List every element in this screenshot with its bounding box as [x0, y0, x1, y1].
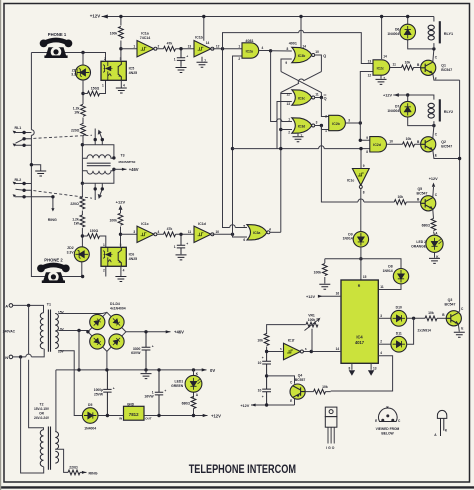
wire IC5 pin4 ground stub	[120, 80, 122, 87]
svg-text:16VW: 16VW	[144, 395, 154, 399]
wire IC1b out to IC2a	[212, 48, 242, 50]
resistor 47k ch1	[164, 46, 176, 51]
svg-text:+46V: +46V	[174, 330, 184, 335]
svg-text:IC3b: IC3b	[298, 54, 306, 58]
wire IC3c out	[315, 97, 322, 99]
svg-text:8: 8	[287, 47, 289, 51]
svg-text:I G O: I G O	[326, 446, 334, 450]
wire IC2d out to 10k	[387, 143, 421, 145]
wire LED2 to ground	[434, 252, 436, 257]
svg-text:Q2: Q2	[441, 140, 446, 144]
svg-text:C: C	[435, 56, 438, 60]
transistor Q4 BC557 pnp	[290, 384, 305, 399]
contact T3 top poles	[95, 129, 102, 145]
wire RL2 arm	[16, 189, 32, 197]
svg-text:4001: 4001	[289, 42, 297, 46]
svg-text:5: 5	[280, 347, 282, 351]
wire 10k to Q3	[437, 317, 446, 319]
svg-text:LED1: LED1	[175, 380, 184, 384]
wire pin14 from IC1f	[303, 351, 341, 353]
wire pin2 to D11	[378, 343, 391, 345]
wire IC3b vdd stub	[300, 17, 302, 48]
svg-text:12: 12	[216, 45, 220, 49]
svg-text:10k: 10k	[322, 385, 328, 389]
op-amp IC1a inverter	[137, 41, 157, 57]
svg-text:9: 9	[285, 61, 287, 65]
svg-text:RLY1: RLY1	[444, 32, 453, 36]
svg-text:Q3: Q3	[448, 298, 453, 302]
svg-text:B: B	[417, 198, 420, 202]
resistor 10k q2	[403, 142, 415, 147]
ground LED2	[429, 258, 440, 263]
node IC1d out junction	[231, 233, 234, 236]
svg-text:IC1b: IC1b	[195, 36, 204, 40]
svg-text:5: 5	[243, 225, 245, 229]
svg-text:11: 11	[188, 230, 192, 234]
node zd1-150 junction	[81, 92, 84, 95]
wire T3 left rail	[81, 145, 83, 184]
svg-text:GREEN: GREEN	[171, 384, 184, 388]
svg-text:45035/MT60: 45035/MT60	[118, 160, 136, 164]
svg-text:D11: D11	[396, 332, 402, 336]
bridge diamond	[88, 312, 126, 351]
wire sec top to bridge	[58, 312, 107, 313]
phone 1 icon	[40, 40, 73, 59]
svg-text:14: 14	[336, 347, 340, 351]
diode D7 1N4004	[400, 101, 416, 117]
wire bus 270.6 to IC3d pin1	[271, 51, 292, 122]
transistor Q5 BC547	[421, 196, 436, 211]
svg-text:IC1a: IC1a	[141, 32, 150, 36]
wire hop IC3d pin1	[277, 119, 285, 122]
ground under rail	[145, 370, 147, 373]
LED1 green	[193, 370, 195, 416]
svg-text:B: B	[417, 63, 420, 67]
svg-text:ORANGE: ORANGE	[411, 245, 427, 249]
relay RL1 contact arrows	[13, 131, 16, 147]
svg-text:Q1: Q1	[441, 63, 446, 67]
svg-text:24V-0-24V: 24V-0-24V	[34, 416, 50, 420]
wire IC3d out	[315, 125, 322, 127]
svg-text:RL2: RL2	[15, 178, 22, 182]
op-amp IC1d inverter	[194, 226, 214, 242]
wire hop over RL1 contact	[31, 130, 34, 136]
node ch2 junction	[81, 234, 84, 237]
svg-text:+: +	[186, 242, 188, 246]
svg-text:13: 13	[373, 366, 377, 370]
phone 2 icon	[37, 265, 70, 284]
svg-text:A: A	[5, 303, 8, 308]
svg-text:K: K	[445, 429, 448, 433]
svg-text:13: 13	[188, 44, 192, 48]
logic gate IC3d 4001	[292, 118, 312, 133]
capacitor 1u ch1	[177, 49, 185, 67]
svg-text:PHONE 2: PHONE 2	[44, 257, 63, 262]
wire 680 to LED2	[434, 232, 435, 236]
diode D9 1N914	[353, 232, 368, 247]
resistor 1.2k ch1	[81, 104, 86, 116]
node 47k-cap junction	[179, 47, 182, 50]
svg-text:10: 10	[258, 361, 262, 365]
wire Q5 emitter to 680	[432, 210, 435, 219]
svg-text:1: 1	[133, 44, 135, 48]
wire IC3c pin13	[277, 102, 292, 149]
capacitor 1000u	[103, 370, 111, 416]
ground IC1b pin7	[201, 57, 203, 62]
wire cross diagonal A	[281, 72, 322, 93]
svg-text:1: 1	[174, 57, 176, 61]
svg-text:3: 3	[133, 230, 135, 234]
svg-text:1N4004: 1N4004	[387, 32, 399, 36]
svg-text:220Ω: 220Ω	[71, 128, 80, 132]
svg-text:T2: T2	[40, 402, 44, 406]
transistor Q2 BC547	[421, 137, 436, 152]
relay RLY1 coil	[428, 21, 440, 43]
wire Q3 emitter to gnd	[457, 325, 460, 332]
logic gate IC2b 4081	[329, 115, 346, 130]
svg-text:+12V: +12V	[211, 413, 221, 418]
wire +12V to RLY2 top	[393, 95, 434, 100]
inverter IC1f	[284, 343, 304, 359]
svg-text:+: +	[152, 344, 154, 348]
wire D10 to 10k	[407, 317, 425, 319]
wire dashed RL2 link	[33, 191, 92, 199]
wire IC3a out up the 280.8 bus	[270, 231, 281, 233]
svg-text:2: 2	[288, 131, 290, 135]
svg-text:10: 10	[258, 389, 262, 393]
relay RLY2 coil	[428, 99, 440, 121]
svg-text:11: 11	[315, 93, 319, 97]
svg-text:2: 2	[380, 340, 382, 344]
resistor 220R ch2	[80, 197, 85, 209]
svg-text:15V: 15V	[58, 350, 65, 354]
transformer T3 loop	[81, 129, 127, 201]
diode D10	[391, 310, 407, 326]
svg-text:LED 2: LED 2	[416, 240, 426, 244]
wire 220R to RING	[80, 471, 87, 473]
svg-text:240VAC: 240VAC	[3, 329, 16, 333]
wire rail to IC2c vdd	[381, 17, 383, 60]
svg-text:T1: T1	[47, 303, 51, 307]
resistor 10k q4	[314, 389, 326, 394]
wire sec bottom down to D5	[58, 351, 82, 416]
resistor 680 q5	[431, 219, 436, 231]
wire IC3c pin12	[281, 93, 292, 94]
wire pin3 to D10	[378, 317, 391, 319]
svg-text:1N4004: 1N4004	[84, 427, 96, 431]
wire to Q4 collector	[267, 376, 295, 384]
ground IC4 pin8	[349, 370, 355, 376]
svg-text:2x1N914: 2x1N914	[418, 329, 432, 333]
svg-text:4: 4	[158, 230, 160, 234]
wire bridge right +46V	[126, 331, 171, 333]
wire hop N over A column	[26, 354, 32, 357]
svg-text:1: 1	[288, 118, 290, 122]
wire ground tap	[31, 165, 40, 171]
svg-text:10k: 10k	[397, 195, 403, 199]
wire 150R ch2	[82, 236, 105, 247]
wire to IC2b pin1	[321, 126, 328, 130]
wire +12V to pin16	[319, 295, 342, 297]
svg-text:8: 8	[349, 366, 351, 370]
svg-text:IC2d: IC2d	[373, 143, 381, 147]
svg-text:1000µ: 1000µ	[94, 388, 103, 392]
wire T3 bottom	[82, 169, 114, 183]
wire D8 to pin11	[378, 284, 401, 290]
svg-text:IC6: IC6	[129, 252, 135, 256]
wire IC2c out to 10k	[390, 67, 421, 69]
wire IC3b out to Q column	[315, 55, 322, 72]
zener ZD2	[74, 247, 89, 262]
wire A to T1	[13, 305, 44, 312]
resistor 10k q5	[394, 200, 406, 205]
wire pin13 gnd stub	[370, 363, 372, 370]
svg-text:N: N	[5, 355, 8, 360]
wire bus 280.8 down	[280, 94, 282, 233]
svg-text:D9: D9	[348, 232, 352, 236]
wire Qbar-drive column down to Q5 line	[321, 126, 394, 203]
svg-text:IC1f: IC1f	[288, 339, 295, 343]
transistor pinout viewed from below	[378, 408, 397, 421]
svg-text:15: 15	[363, 275, 367, 279]
svg-text:3: 3	[316, 121, 318, 125]
svg-text:BELOW: BELOW	[381, 431, 394, 435]
svg-text:47k: 47k	[167, 227, 173, 231]
svg-text:100k: 100k	[109, 218, 117, 222]
resistor 10k q1	[402, 65, 414, 70]
svg-text:D6: D6	[395, 27, 399, 31]
svg-text:+46V: +46V	[129, 167, 139, 172]
svg-text:680Ω: 680Ω	[182, 402, 191, 406]
wire ch2 chain column	[81, 183, 84, 276]
svg-text:E: E	[461, 326, 463, 330]
optocoupler IC5 4N25	[101, 61, 126, 80]
svg-text:2: 2	[103, 268, 105, 272]
inverter IC1e (down)	[352, 169, 369, 189]
svg-text:2: 2	[238, 57, 240, 61]
logic gate IC2a 4081	[242, 43, 259, 58]
wire pin4 loop	[331, 356, 393, 391]
wire IC1e out to D9	[360, 188, 362, 231]
svg-text:4: 4	[123, 84, 125, 88]
svg-text:13: 13	[286, 102, 290, 106]
svg-text:4: 4	[380, 351, 382, 355]
LED2 orange	[426, 235, 443, 252]
svg-text:+12V: +12V	[90, 14, 100, 19]
wire up to IC2c pin12	[360, 72, 373, 124]
wire IC1a out to 47k	[157, 48, 194, 50]
svg-text:4: 4	[269, 227, 271, 231]
wire 100k to ground	[324, 259, 326, 284]
svg-text:C: C	[435, 132, 438, 136]
capacitor 3300u	[142, 332, 151, 370]
bridge diodes D1-D4	[90, 314, 124, 349]
wire pin15 column	[360, 259, 362, 280]
diode D8 1N914	[393, 269, 408, 284]
svg-text:IC4: IC4	[356, 335, 363, 340]
svg-text:2: 2	[158, 44, 160, 48]
svg-text:+: +	[262, 395, 264, 399]
wire N column to T2 primary bottom	[21, 357, 44, 473]
svg-text:3: 3	[348, 118, 350, 122]
resistor 100k ch1	[120, 17, 122, 49]
svg-text:4017: 4017	[355, 340, 365, 345]
svg-text:9: 9	[363, 164, 365, 168]
transformer T1	[40, 310, 58, 352]
wire Q4 base to 10k	[305, 391, 331, 393]
T3 upper winding	[82, 155, 114, 158]
wire IC2b out	[346, 122, 361, 124]
svg-text:Q5: Q5	[417, 187, 422, 191]
resistor 47k ch2	[164, 232, 176, 237]
wire IC6 pin2 stub	[105, 266, 107, 276]
diode D7 wires	[408, 95, 434, 126]
svg-text:A: A	[196, 393, 199, 397]
svg-text:GND: GND	[127, 402, 135, 406]
logic gate IC3b 4001	[292, 47, 312, 62]
T3 lower winding	[82, 171, 114, 174]
svg-text:100k: 100k	[314, 271, 322, 275]
capacitor 1u 16VW	[155, 370, 163, 416]
svg-text:C: C	[398, 419, 401, 423]
LED pictogram	[437, 410, 446, 436]
wire IC1c out to 47k	[157, 233, 194, 235]
capacitor 10u lower	[262, 376, 271, 405]
wire to IC1c input	[121, 233, 138, 235]
ground IC3d pin7	[297, 133, 299, 137]
svg-text:IC3a: IC3a	[253, 231, 260, 235]
wire bridge bottom to rail	[106, 351, 108, 370]
node phone2 line junction	[81, 275, 84, 278]
svg-text:3: 3	[380, 314, 382, 318]
node 100k-IC5 junction	[119, 47, 122, 50]
svg-text:47k: 47k	[167, 42, 173, 46]
svg-text:BC547: BC547	[445, 302, 456, 306]
diode D6 wires	[408, 17, 434, 49]
svg-text:IC5: IC5	[129, 66, 135, 70]
svg-text:4x1N4004: 4x1N4004	[110, 306, 126, 310]
wire sec 0V tap to bridge left	[58, 330, 88, 332]
wire RLY2 coil bottom	[433, 121, 435, 125]
svg-text:B: B	[417, 140, 420, 144]
svg-text:IC3d: IC3d	[298, 124, 306, 128]
wire Q2 collector	[433, 126, 434, 139]
wire to IC1a input	[121, 48, 137, 50]
ground IC4 pin13	[368, 370, 374, 376]
capacitor 1u ch2	[177, 234, 185, 254]
wire right bus	[459, 80, 461, 311]
diode D6 1N4004	[400, 24, 416, 40]
svg-text:1: 1	[152, 390, 154, 394]
resistor 100k ic4	[322, 264, 327, 276]
wire Q1 emitter to bus	[433, 74, 460, 81]
svg-text:10: 10	[216, 230, 220, 234]
wire VR1 left to 10k column	[267, 325, 306, 334]
terminal N	[9, 355, 13, 359]
transistor Q3 BC547	[446, 311, 461, 326]
terminal A	[9, 304, 13, 308]
wire +46V tap	[114, 168, 127, 170]
wire 150R to IC5 pin1	[83, 80, 106, 93]
logic gate IC2c 4081	[373, 60, 390, 75]
svg-text:C: C	[290, 380, 293, 384]
svg-text:+12V: +12V	[240, 404, 249, 408]
resistor 1.2k ch2	[80, 215, 85, 227]
ground left tap	[35, 171, 46, 176]
wire long line to IC1e	[360, 149, 362, 169]
logic gate IC3a 4001	[247, 225, 267, 240]
svg-text:+: +	[186, 54, 188, 58]
contact T3 bottom poles	[95, 183, 102, 200]
node 47k-cap junction ch2	[179, 233, 182, 236]
svg-text:12: 12	[368, 73, 372, 77]
wire N to T1 bottom	[13, 349, 45, 357]
wire 0V rail	[56, 368, 207, 431]
svg-text:3.3V: 3.3V	[71, 73, 79, 77]
wire feedback top y32.5	[223, 33, 374, 64]
svg-text:E: E	[375, 419, 377, 423]
svg-text:16: 16	[336, 292, 340, 296]
svg-text:IC3c: IC3c	[298, 96, 305, 100]
svg-text:D7: D7	[395, 105, 399, 109]
wire dashed RL1 link	[33, 135, 92, 138]
wire RLY1 coil ends	[433, 17, 435, 49]
resistor 100k ch2	[120, 206, 122, 248]
svg-text:6: 6	[305, 347, 307, 351]
wire y258.8 line	[325, 259, 401, 269]
svg-text:150Ω: 150Ω	[91, 86, 100, 90]
resistor 150R ch2	[88, 234, 100, 239]
relay RL2 contact arrows	[13, 182, 55, 212]
wire Q1 collector	[433, 49, 434, 62]
svg-text:4N25: 4N25	[129, 257, 138, 261]
svg-text:1: 1	[174, 245, 176, 249]
svg-text:0V: 0V	[210, 368, 215, 373]
svg-text:1: 1	[103, 243, 105, 247]
wire RL2 bottom contact to RING	[15, 197, 53, 210]
capacitor 10u upper	[262, 352, 271, 376]
svg-text:IC2a: IC2a	[246, 49, 253, 53]
wire IC3d pin2	[281, 129, 292, 131]
svg-text:IC2c: IC2c	[377, 66, 384, 70]
svg-text:4081: 4081	[245, 39, 253, 43]
svg-text:74C14: 74C14	[140, 36, 151, 40]
resistor 680 led1	[191, 397, 196, 409]
wire Qbar column to IC2b pin2	[321, 98, 328, 117]
svg-text:1: 1	[238, 45, 240, 49]
diode D5 1N4004	[82, 408, 98, 424]
svg-text:RING: RING	[48, 218, 57, 222]
svg-text:C: C	[435, 193, 438, 197]
svg-text:IC2b: IC2b	[332, 122, 340, 126]
svg-text:OUT: OUT	[145, 417, 152, 421]
left page edge	[0, 0, 2, 490]
svg-text:K: K	[196, 372, 199, 376]
node RL1 arm terminal	[22, 137, 25, 140]
wire zd1 column	[82, 53, 84, 145]
wire +12V rail	[144, 415, 208, 417]
node RL1 bottom terminal	[22, 144, 25, 147]
wire left column phone1 to phone2	[31, 53, 82, 277]
wire hop IC3a pin5 over 232.5	[230, 225, 236, 228]
svg-text:4: 4	[123, 268, 125, 272]
svg-text:B: B	[442, 313, 445, 317]
wire T3 top	[82, 145, 114, 158]
svg-text:100k: 100k	[308, 318, 316, 322]
svg-text:3300: 3300	[133, 347, 141, 351]
wire Q3 collector from bus	[458, 310, 459, 313]
svg-text:14: 14	[206, 41, 210, 45]
